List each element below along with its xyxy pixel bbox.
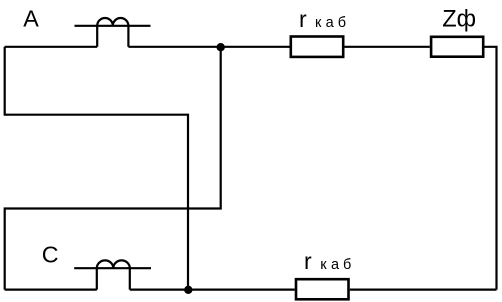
current transformer TA1 (phase A) winding humps xyxy=(97,18,128,26)
current transformer TA2 (phase C) winding humps xyxy=(97,260,130,268)
svg-text:r: r xyxy=(299,6,307,32)
wire loop C return (node 1 down, across left, down to bottom wire) xyxy=(5,47,221,290)
wire bottom middle (r_cab2 to TA2) xyxy=(130,289,295,291)
current transformer TA2 (phase C) secondary bar xyxy=(74,267,151,269)
junction node 1 (top tie point) xyxy=(217,43,225,51)
impedance Zf (phase load) xyxy=(431,37,483,57)
wire bottom right (return to r_cab2) xyxy=(350,289,497,291)
resistor R2 r_cab (bottom cable resistance) xyxy=(296,279,349,299)
wire top middle (TA1 to r_cab) xyxy=(128,46,289,48)
current transformer TA1 (phase A) secondary bar xyxy=(75,25,151,27)
junction node 2 (bottom tie point) xyxy=(184,286,192,294)
wire right side (Zf down to bottom return) xyxy=(484,47,496,290)
current transformer TA1 (phase A) primary step xyxy=(97,26,128,47)
current transformer TA2 (phase C) primary step xyxy=(97,268,130,289)
svg-text:каб: каб xyxy=(320,257,351,273)
svg-text:каб: каб xyxy=(315,15,346,31)
svg-text:A: A xyxy=(23,5,39,31)
svg-text:Zф: Zф xyxy=(442,6,476,32)
svg-text:C: C xyxy=(42,242,59,268)
svg-text:r: r xyxy=(304,248,312,274)
resistor R1 r_cab (top cable resistance) xyxy=(291,37,343,57)
wire top (r_cab to Zf) xyxy=(345,46,430,48)
wire bottom left (phase C feed) xyxy=(5,289,97,291)
wire loop A return (left down, across, down to node 2) xyxy=(5,47,188,290)
wire top-left (phase A feed) xyxy=(5,46,98,48)
